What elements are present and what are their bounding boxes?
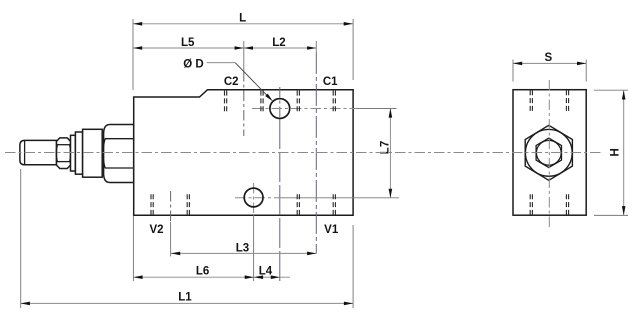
hex socket bbox=[536, 138, 561, 167]
svg-text:L5: L5 bbox=[181, 37, 195, 49]
dimension L1 bbox=[21, 169, 353, 308]
cap hex nut bbox=[103, 125, 134, 183]
port C2 centerline bbox=[243, 41, 245, 71]
svg-text:C2: C2 bbox=[224, 76, 239, 88]
gauge hole circle (diameter D) bbox=[270, 99, 290, 119]
gauge hole horizontal centerline bbox=[252, 108, 356, 110]
dimension L bbox=[133, 19, 353, 90]
svg-text:L1: L1 bbox=[178, 292, 192, 304]
valve body (end view) bbox=[513, 90, 586, 216]
spring cap cylinder bbox=[83, 129, 103, 177]
dimension L4 bbox=[254, 275, 290, 279]
port V2 thread hidden lines bbox=[151, 194, 189, 215]
svg-text:L3: L3 bbox=[236, 242, 249, 254]
port C2 thread hidden lines bbox=[225, 91, 264, 112]
washer bbox=[71, 135, 76, 171]
adjusting screw stem bbox=[20, 140, 57, 164]
svg-text:V1: V1 bbox=[324, 224, 339, 236]
spacer bushing bbox=[75, 132, 82, 174]
port V2 centerline bbox=[170, 191, 172, 222]
end view port thread hidden lines (top) bbox=[530, 90, 568, 111]
dimension L3 bbox=[171, 252, 316, 256]
end view vertical centerline bbox=[548, 80, 550, 230]
dimension L5 bbox=[133, 46, 244, 50]
svg-text:S: S bbox=[544, 52, 552, 64]
lower hole circle bbox=[244, 188, 263, 207]
dimension L7 bbox=[389, 108, 393, 198]
dimension H bbox=[594, 90, 628, 215]
svg-text:V2: V2 bbox=[149, 224, 163, 236]
svg-text:L6: L6 bbox=[196, 266, 209, 278]
port C1 thread hidden lines bbox=[297, 91, 335, 112]
locknut (small hex) bbox=[56, 138, 70, 169]
gauge hole vertical centerline bbox=[279, 87, 281, 119]
dimension L6 bbox=[133, 216, 254, 281]
hex socket inscribed circle bbox=[536, 140, 561, 165]
end view port thread hidden lines (bottom) bbox=[530, 194, 568, 215]
lower hole horizontal centerline bbox=[235, 197, 283, 199]
port C1 / V1 centerline bbox=[315, 41, 317, 52]
leader line for diameter D bbox=[207, 63, 273, 102]
plug chamfer circle bbox=[525, 129, 572, 176]
dimension L2 bbox=[244, 46, 316, 50]
valve body (left view) bbox=[134, 90, 353, 216]
svg-text:C1: C1 bbox=[323, 76, 338, 88]
svg-text:L4: L4 bbox=[259, 266, 273, 278]
svg-text:H: H bbox=[610, 148, 622, 156]
lower hole vertical centerline bbox=[253, 183, 255, 215]
cavity plug hex (end view) bbox=[525, 125, 572, 180]
svg-text:Ø D: Ø D bbox=[183, 59, 203, 71]
dimension S bbox=[513, 60, 586, 82]
port V1 thread hidden lines bbox=[297, 194, 335, 215]
svg-text:L2: L2 bbox=[272, 37, 285, 49]
svg-text:L: L bbox=[239, 13, 246, 25]
main horizontal centerline bbox=[5, 152, 603, 154]
